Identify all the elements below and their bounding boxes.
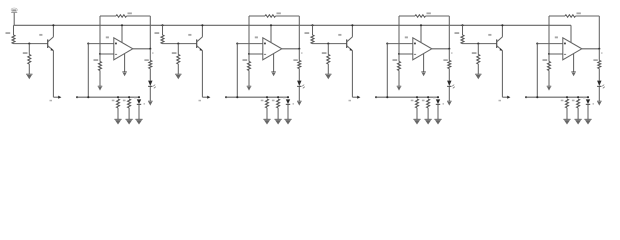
wire U2 V+ pin (270, 25, 272, 42)
junction bus/D3B (437, 96, 439, 98)
wire U3 V- pin (423, 54, 425, 72)
junction bus/inv wire (536, 96, 538, 98)
wire U4 output (582, 48, 600, 50)
ground (397, 85, 402, 87)
junction bus/inv wire (87, 96, 89, 98)
wire inverting input to bus (87, 43, 89, 45)
junction bus/R3B (427, 96, 429, 98)
resistor R21 (155, 25, 165, 43)
resistor R31 (305, 25, 315, 43)
op-amp U3 (405, 36, 432, 59)
junction bus/inv wire (236, 96, 238, 98)
junction bus/R2A (266, 96, 268, 98)
wire U1 V- pin (124, 54, 126, 72)
junction rail/Q2 collector (201, 24, 203, 26)
port OUT2 arrow (207, 96, 210, 99)
resistor R3G (393, 54, 401, 86)
resistor R1A (112, 99, 120, 119)
resistor R42 (472, 44, 480, 74)
ground (122, 71, 127, 73)
wire op-amp U2 inverting input (237, 43, 262, 45)
transistor Q3 (338, 25, 352, 51)
junction noninv input/feedback (398, 53, 400, 55)
diode D4B (583, 97, 594, 119)
diode D4A (597, 81, 605, 101)
ground (413, 118, 420, 120)
resistor R4F feedback (549, 12, 599, 17)
wire Q4 emitter to port (501, 51, 503, 98)
wire base node Q3 (313, 43, 347, 45)
wire Q3 emitter to port (351, 51, 353, 98)
port OUT3 arrow (357, 96, 360, 99)
wire U4 V+ pin (570, 25, 572, 42)
junction bus/D4B (587, 96, 589, 98)
ground (263, 118, 270, 120)
resistor R1F feedback (100, 12, 150, 17)
junction bus/R2B (277, 96, 279, 98)
resistor R3O (443, 49, 450, 81)
ground (284, 118, 291, 120)
resistor R32 (322, 44, 330, 74)
wire base node Q2 (163, 43, 197, 45)
resistor R2A (261, 99, 269, 119)
resistor R11 (6, 25, 16, 43)
ground (126, 118, 133, 120)
junction bus/inv wire (386, 96, 388, 98)
wire U3 output (432, 48, 450, 50)
junction bus/R4A (566, 96, 568, 98)
wire inverting input to bus (536, 43, 538, 45)
resistor R4A (561, 99, 569, 119)
ground (175, 73, 181, 75)
junction base/R42 (477, 43, 479, 45)
ground (148, 100, 153, 102)
wire feedback left vertical (548, 16, 550, 54)
junction output/feedback (598, 48, 600, 50)
resistor R2G (243, 54, 251, 86)
junction bus/R3A (416, 96, 418, 98)
wire op-amp U3 inverting input (387, 43, 413, 45)
diode D1B (134, 97, 145, 119)
resistor R1B (123, 99, 131, 119)
wire base node Q4 (463, 43, 497, 45)
ground (98, 85, 103, 87)
ground (247, 85, 252, 87)
junction rail/Q3 collector (351, 24, 353, 26)
ground (421, 71, 426, 73)
wire Q1 emitter to port (52, 51, 54, 98)
wire feedback left vertical (99, 16, 101, 54)
wire U1 V+ pin (121, 25, 123, 42)
wire U1 output (133, 48, 151, 50)
wire bus node B4 (525, 96, 527, 98)
wire feedback left vertical (398, 16, 400, 54)
transistor Q2 (188, 25, 202, 51)
wire op-amp U3 noninverting input (399, 53, 413, 55)
ground (563, 118, 570, 120)
wire Q2 emitter to port (201, 51, 203, 98)
transistor Q1 (39, 25, 53, 51)
resistor R3B (422, 99, 430, 119)
op-amp U1 (106, 36, 133, 59)
wire VCC rail (net VCC) (14, 24, 572, 26)
resistor R41 (455, 25, 465, 43)
wire feedback right vertical (298, 16, 300, 49)
junction bus/R4B (577, 96, 579, 98)
wire op-amp U4 inverting input (537, 43, 563, 45)
junction rail/U2 V+ (270, 24, 272, 26)
ground (434, 118, 441, 120)
ground (297, 100, 302, 102)
resistor R4O (593, 49, 600, 81)
diode D3A (447, 81, 455, 101)
wire feedback right vertical (448, 16, 450, 49)
ground (547, 85, 552, 87)
diode D2A (297, 81, 305, 101)
wire U2 V- pin (273, 54, 275, 72)
resistor R3A (411, 99, 419, 119)
op-amp U4 (555, 36, 582, 59)
ground (597, 100, 602, 102)
wire bus node B1 (76, 96, 78, 98)
resistor R1G (94, 54, 102, 86)
resistor R2B (272, 99, 280, 119)
junction rail/U3 V+ (420, 24, 422, 26)
wire op-amp U1 inverting input (88, 43, 114, 45)
resistor R2F feedback (249, 12, 299, 17)
ground (447, 100, 452, 102)
resistor R22 (172, 44, 180, 74)
port OUT1 arrow (58, 96, 61, 99)
ground (26, 73, 32, 75)
ground (425, 118, 432, 120)
ground (275, 118, 282, 120)
transistor Q4 (488, 25, 502, 51)
wire feedback right vertical (149, 16, 151, 49)
junction bus/D2B (287, 96, 289, 98)
resistor R12 (23, 44, 31, 74)
junction output/feedback (298, 48, 300, 50)
junction base/R32 (327, 43, 329, 45)
junction noninv input/feedback (99, 53, 101, 55)
junction base/R12 (28, 43, 30, 45)
wire U3 V+ pin (420, 25, 422, 42)
power VCC symbol (11, 8, 17, 25)
diode D1A (148, 81, 156, 101)
resistor R2O (293, 49, 300, 81)
junction noninv input/feedback (248, 53, 250, 55)
resistor R1O (144, 49, 151, 81)
junction bus/R1B (128, 96, 130, 98)
ground (584, 118, 591, 120)
junction base/R22 (177, 43, 179, 45)
diode D2B (283, 97, 294, 119)
wire U4 V- pin (573, 54, 575, 72)
junction rail/R41 at x=462 (461, 24, 463, 26)
wire op-amp U1 noninverting input (100, 53, 114, 55)
junction output/feedback (149, 48, 151, 50)
junction output/feedback (448, 48, 450, 50)
wire feedback left vertical (248, 16, 250, 54)
ground (325, 73, 331, 75)
junction bus/R1A (117, 96, 119, 98)
ground (575, 118, 582, 120)
ground (475, 73, 481, 75)
resistor R4B (572, 99, 580, 119)
junction noninv input/feedback (548, 53, 550, 55)
ground (571, 71, 576, 73)
junction rail/R31 at x=312 (311, 24, 313, 26)
resistor R4G (543, 54, 551, 86)
junction rail/Q1 collector (52, 24, 54, 26)
wire inverting input to bus (386, 43, 388, 45)
wire bus node B2 (225, 96, 227, 98)
wire op-amp U2 noninverting input (249, 53, 263, 55)
resistor R3F feedback (399, 12, 449, 17)
ground (135, 118, 142, 120)
ground (271, 71, 276, 73)
diode D3B (433, 97, 444, 119)
op-amp U2 (255, 36, 282, 59)
junction rail/R21 at x=162 (161, 24, 163, 26)
junction rail/Q4 collector (501, 24, 503, 26)
junction bus/D1B (138, 96, 140, 98)
wire feedback right vertical (598, 16, 600, 49)
wire inverting input to bus (236, 43, 238, 45)
ground (114, 118, 121, 120)
wire bus node B3 (375, 96, 377, 98)
wire base node Q1 (14, 43, 48, 45)
port OUT4 arrow (507, 96, 510, 99)
wire U2 output (282, 48, 300, 50)
junction rail/U1 V+ (121, 24, 123, 26)
wire op-amp U4 noninverting input (549, 53, 563, 55)
